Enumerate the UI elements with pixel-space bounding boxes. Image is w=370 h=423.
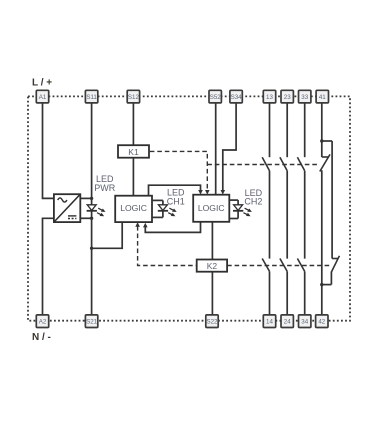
terminal S11 — [85, 90, 97, 103]
terminal 41 — [316, 90, 328, 103]
svg-text:13: 13 — [266, 94, 273, 101]
svg-text:A2: A2 — [39, 319, 47, 326]
terminal S34 — [230, 90, 242, 103]
terminal 14 — [263, 315, 275, 328]
relay coil K1 — [118, 145, 149, 158]
dashed actuator line bottom contacts — [227, 265, 330, 267]
arrow into LOGIC2 from K1 dashed — [205, 190, 210, 195]
svg-text:S34: S34 — [231, 94, 243, 101]
dashed link K1 to LOGIC2 — [150, 151, 208, 190]
wire S34 to LOGIC2 — [223, 103, 236, 190]
terminal S52 — [209, 90, 221, 103]
contact K2 23-24 lower — [280, 259, 287, 315]
wire A1 to power supply — [43, 103, 55, 198]
wire A2 to power supply — [43, 218, 55, 315]
terminal A2 — [36, 315, 48, 328]
terminal 34 — [299, 315, 311, 328]
power supply U1 AC/DC converter — [54, 194, 80, 222]
svg-text:33: 33 — [301, 94, 308, 101]
wire K2 to S22 — [211, 272, 213, 315]
wire K1 to LOGIC1 — [132, 158, 134, 196]
dashed link LOGIC1 to K2 — [138, 226, 197, 266]
svg-text:LOGIC: LOGIC — [198, 203, 225, 213]
svg-text:K2: K2 — [207, 261, 218, 271]
arrow into LOGIC1 bottom — [143, 223, 148, 228]
terminal 23 — [281, 90, 293, 103]
svg-text:CH2: CH2 — [244, 197, 262, 207]
device boundary dotted frame — [28, 96, 350, 320]
logic block U2 LOGIC channel 1 — [115, 196, 152, 222]
terminal 42 — [316, 315, 328, 328]
svg-text:K1: K1 — [128, 147, 139, 157]
terminal 33 — [299, 90, 311, 103]
junction dot rail — [90, 247, 93, 250]
svg-text:S11: S11 — [86, 94, 97, 101]
svg-text:S22: S22 — [206, 319, 218, 326]
svg-text:S52: S52 — [210, 94, 222, 101]
LED CH2 diode — [229, 200, 252, 218]
terminal S21 — [85, 315, 97, 328]
svg-text:LOGIC: LOGIC — [120, 203, 147, 213]
svg-text:42: 42 — [318, 319, 325, 326]
wire S12 to K1 — [132, 103, 134, 145]
junction dot power top — [90, 197, 93, 200]
arrow into LOGIC2 top — [198, 190, 203, 195]
arrow into LOGIC2 from S34 — [221, 190, 226, 195]
svg-text:N / -: N / - — [32, 332, 51, 343]
svg-text:CH1: CH1 — [167, 196, 185, 206]
LED CH1 diode — [152, 200, 177, 217]
contact K1 13-14 — [262, 103, 269, 259]
svg-text:23: 23 — [284, 94, 291, 101]
relay coil K2 — [197, 260, 227, 272]
junction dot power bottom — [90, 217, 93, 220]
svg-text:L / +: L / + — [32, 78, 52, 89]
svg-text:S21: S21 — [86, 319, 98, 326]
wire LOGIC2 to K2 — [211, 222, 213, 260]
svg-text:A1: A1 — [39, 94, 47, 101]
contact K2 33-34 lower — [297, 259, 304, 315]
LED PWR diode — [87, 205, 106, 216]
svg-text:41: 41 — [319, 94, 326, 101]
wire power supply to LED PWR top — [80, 197, 92, 199]
wire LOGIC1 bottom to S rail — [92, 222, 123, 248]
wire loop LOGIC2 bottom to LOGIC1 bottom — [145, 222, 200, 233]
logic block U3 LOGIC channel 2 — [193, 195, 229, 222]
terminal 24 — [281, 315, 293, 328]
svg-text:PWR: PWR — [94, 183, 115, 193]
svg-text:34: 34 — [301, 319, 308, 326]
contact K2 13-14 lower — [262, 259, 269, 315]
dashed actuator line top contacts — [207, 164, 319, 166]
terminal S12 — [127, 90, 139, 103]
wire power supply to LED PWR bottom — [80, 217, 92, 219]
wire S11 to S21 rail — [91, 103, 93, 315]
arrow into LOGIC1 from dashed — [135, 222, 140, 227]
wire S52 to LOGIC2 — [215, 103, 217, 195]
contact K1 33-34 — [297, 103, 304, 259]
terminal 13 — [263, 90, 275, 103]
terminal S22 — [206, 315, 218, 328]
NC contact chain 41-42 — [320, 103, 340, 315]
contact K1 23-24 — [280, 103, 287, 259]
terminal A1 — [36, 90, 48, 103]
wire loop LOGIC1 top to LOGIC2 top — [149, 185, 201, 196]
svg-text:24: 24 — [284, 319, 291, 326]
svg-text:14: 14 — [266, 319, 273, 326]
svg-text:S12: S12 — [128, 94, 140, 101]
